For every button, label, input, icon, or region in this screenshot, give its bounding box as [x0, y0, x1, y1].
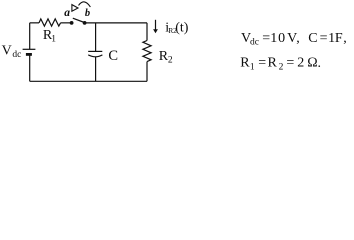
svg-text:.: .: [318, 56, 322, 71]
current arrow iR2 shaft: [155, 20, 157, 30]
svg-text:F: F: [335, 31, 343, 46]
wire bottom: [30, 80, 147, 82]
svg-text:1: 1: [250, 63, 255, 73]
svg-text:R: R: [268, 56, 278, 71]
battery Vdc long plate: [23, 48, 36, 50]
wire capacitor branch lower: [95, 57, 97, 81]
capacitor C bottom curved plate: [88, 55, 102, 57]
parameters text line 1: [241, 31, 347, 48]
wire R1 to node a: [61, 22, 70, 24]
svg-text:Ω: Ω: [307, 56, 317, 71]
resistor R1: [39, 19, 61, 26]
wire left vertical below source: [29, 55, 31, 81]
switch blade a-b: [73, 18, 85, 22]
current arrow iR2 head: [153, 29, 158, 33]
svg-text:R: R: [240, 56, 250, 71]
node b junction dot: [83, 21, 87, 25]
parameters text line 2: [240, 56, 321, 73]
svg-text:1: 1: [51, 35, 56, 45]
svg-text:=: =: [320, 31, 328, 46]
svg-text:dc: dc: [12, 50, 21, 60]
svg-text:a: a: [64, 7, 70, 19]
wire top-left from source to R1: [30, 22, 39, 24]
wire left vertical above source: [29, 23, 31, 49]
svg-text:C: C: [108, 48, 118, 64]
capacitor C top plate: [88, 50, 102, 52]
svg-text:(t): (t): [175, 21, 189, 36]
wire node b to top-right corner: [86, 22, 148, 24]
svg-text:b: b: [85, 8, 90, 19]
svg-text:,: ,: [296, 31, 300, 46]
node a junction dot: [70, 21, 74, 25]
switch motion arc: [79, 2, 91, 7]
svg-text:10: 10: [270, 31, 286, 46]
svg-text:2: 2: [297, 56, 304, 71]
resistor R2: [143, 41, 151, 62]
battery Vdc short plate: [26, 53, 32, 56]
svg-text:C: C: [308, 31, 317, 46]
svg-text:dc: dc: [250, 38, 259, 48]
switch motion arrowhead: [72, 5, 78, 12]
wire capacitor branch upper: [95, 23, 97, 52]
wire R2 to bottom-right corner: [146, 62, 148, 82]
wire right vertical top to R2: [146, 23, 148, 41]
svg-text:=: =: [258, 56, 266, 71]
svg-text:=: =: [286, 56, 294, 71]
svg-text:,: ,: [343, 31, 347, 46]
svg-text:=: =: [262, 31, 270, 46]
svg-text:V: V: [2, 43, 12, 58]
svg-text:2: 2: [168, 56, 173, 66]
svg-text:2: 2: [279, 63, 284, 73]
